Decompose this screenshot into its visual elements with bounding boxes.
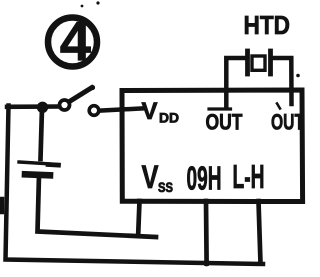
svg-text:09H: 09H	[187, 160, 222, 197]
svg-text:DD: DD	[159, 110, 179, 126]
svg-text:4: 4	[60, 10, 91, 73]
svg-text:L-H: L-H	[233, 158, 265, 195]
svg-text:V: V	[142, 159, 160, 195]
svg-text:V: V	[142, 98, 158, 125]
svg-text:HTD: HTD	[244, 10, 291, 40]
svg-text:OUT: OUT	[206, 110, 243, 135]
svg-text:SS: SS	[158, 179, 173, 195]
svg-text:OUT: OUT	[271, 110, 304, 135]
